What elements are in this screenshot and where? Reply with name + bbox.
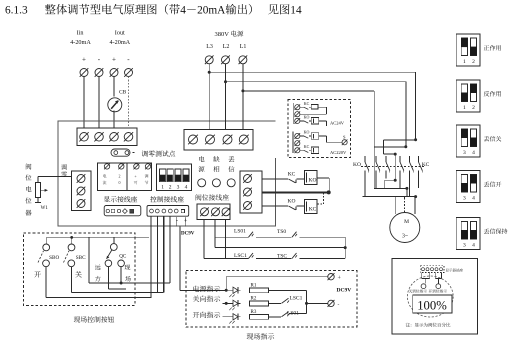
svg-text:4: 4: [180, 5, 186, 17]
svg-text:20mA: 20mA: [197, 5, 226, 17]
svg-text:4: 4: [472, 150, 475, 156]
svg-text:1: 1: [463, 59, 466, 65]
svg-text:2: 2: [472, 59, 475, 65]
svg-text:TS0: TS0: [277, 229, 286, 235]
svg-text:KC: KC: [288, 172, 296, 178]
svg-text:KC: KC: [304, 144, 310, 149]
svg-text:KO: KO: [288, 199, 296, 205]
svg-text:L1: L1: [240, 44, 247, 50]
svg-text:KC: KC: [422, 162, 430, 168]
svg-text:4: 4: [472, 242, 475, 248]
svg-text:3: 3: [463, 242, 466, 248]
svg-text:DC9V: DC9V: [181, 232, 195, 237]
svg-text:KO: KO: [353, 162, 361, 168]
svg-text:1: 1: [463, 105, 466, 111]
svg-text:DC9V: DC9V: [337, 288, 352, 294]
svg-text:0: 0: [119, 180, 121, 185]
svg-text:4-20mA: 4-20mA: [110, 39, 131, 46]
svg-text:SBO: SBO: [49, 255, 59, 261]
svg-text:3: 3: [463, 150, 466, 156]
svg-text:KO: KO: [309, 178, 317, 184]
svg-text:R3: R3: [251, 310, 257, 315]
svg-text:14: 14: [290, 5, 302, 17]
svg-text:+: +: [82, 56, 86, 64]
svg-text:L3: L3: [206, 44, 213, 50]
svg-text:-: -: [338, 302, 340, 308]
svg-text:2: 2: [119, 174, 121, 179]
svg-text:M: M: [404, 219, 409, 225]
svg-text:R2: R2: [251, 297, 257, 302]
svg-text:KC: KC: [309, 207, 317, 213]
svg-text:4: 4: [185, 185, 188, 191]
svg-text:Iin: Iin: [77, 30, 84, 37]
svg-text:100%: 100%: [417, 298, 447, 312]
svg-text:3~: 3~: [402, 234, 408, 240]
svg-text:AC220V: AC220V: [330, 150, 347, 155]
svg-text:QC: QC: [119, 254, 127, 260]
svg-text:4-20mA: 4-20mA: [70, 39, 91, 46]
svg-text:3: 3: [177, 185, 180, 191]
svg-text:4: 4: [472, 195, 475, 201]
svg-text:3: 3: [463, 195, 466, 201]
svg-text:W1: W1: [41, 206, 49, 211]
svg-text:AC24V: AC24V: [330, 121, 345, 126]
svg-text:2: 2: [472, 105, 475, 111]
svg-text:380V: 380V: [215, 31, 230, 38]
svg-text:6.1.3: 6.1.3: [5, 5, 28, 17]
svg-text:1: 1: [161, 185, 164, 191]
svg-text:+: +: [112, 56, 116, 64]
svg-text:SBC: SBC: [76, 255, 86, 261]
svg-text:Iout: Iout: [115, 30, 125, 37]
svg-text:2: 2: [169, 185, 172, 191]
svg-text:KC: KC: [304, 101, 310, 106]
svg-text:KO: KO: [304, 130, 310, 135]
svg-text:KO: KO: [304, 115, 310, 120]
svg-text:LSC1: LSC1: [290, 296, 303, 302]
svg-text:R1: R1: [251, 283, 257, 288]
svg-text:LS01: LS01: [234, 229, 246, 235]
svg-text:L2: L2: [223, 44, 230, 50]
svg-text:CB: CB: [119, 90, 127, 96]
